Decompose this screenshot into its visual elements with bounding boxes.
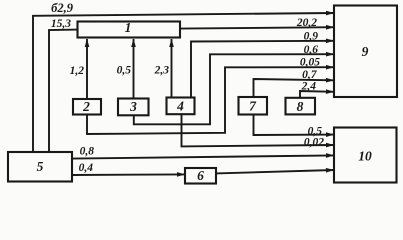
- svg-text:1: 1: [125, 20, 132, 35]
- svg-text:0,8: 0,8: [80, 146, 95, 158]
- wire 0,6 from box 3 bottom down, right, up and into box 9: [134, 54, 334, 124]
- box 10: [334, 128, 397, 183]
- svg-text:0,4: 0,4: [79, 162, 94, 174]
- wire 0,05 from box 2 bottom down, right, up and into box 9: [87, 67, 334, 134]
- wire 20,2 from box 1 right edge to box 9: [180, 27, 334, 28]
- svg-text:0,9: 0,9: [304, 31, 319, 43]
- wire б2,9 from box 5 up and right to box 9: [33, 13, 334, 152]
- box 6: [185, 168, 216, 184]
- wire 0,5 from box 3 top up into box 1: [133, 39, 135, 99]
- wire 0,02 from box 4 bottom down and right into box 10: [182, 114, 335, 146]
- svg-text:0,05: 0,05: [300, 57, 320, 69]
- svg-text:2,3: 2,3: [154, 65, 170, 77]
- wire 0,7 from box 7 top up and right into box 9: [254, 79, 335, 97]
- wire 15,3 from box 5 up and right into box 1 left edge: [49, 30, 78, 152]
- svg-text:4: 4: [176, 98, 184, 113]
- wire 2,3 from box 4 top up into box 1: [171, 39, 173, 98]
- svg-text:2: 2: [82, 99, 90, 114]
- wire 0,4 from box 5 right edge to box 6: [72, 173, 185, 176]
- svg-text:0,7: 0,7: [302, 69, 318, 81]
- box 9: [334, 6, 397, 98]
- svg-text:0,5: 0,5: [117, 65, 132, 77]
- wire 0,5 from box 7 bottom down and right into box 10: [254, 115, 335, 136]
- box 3: [118, 99, 149, 116]
- svg-text:9: 9: [362, 44, 369, 59]
- box 8: [286, 98, 316, 115]
- svg-text:10: 10: [358, 148, 372, 163]
- box 4: [167, 98, 195, 115]
- svg-text:2,4: 2,4: [301, 80, 317, 92]
- svg-text:0,02: 0,02: [304, 136, 324, 148]
- svg-text:20,2: 20,2: [296, 17, 317, 29]
- wire 0,9 from box 4 top riser to box 9: [191, 41, 334, 98]
- svg-text:5: 5: [37, 159, 44, 174]
- svg-text:б2,9: б2,9: [51, 1, 74, 15]
- box 2: [73, 99, 101, 115]
- svg-text:6: 6: [197, 168, 204, 183]
- wire 2,4 from box 8 top up and right into box 9: [300, 91, 334, 98]
- box 7: [239, 97, 268, 115]
- svg-text:8: 8: [297, 99, 304, 114]
- svg-text:1,2: 1,2: [70, 65, 85, 77]
- wire 1,2 from box 2 top up into box 1: [86, 39, 88, 99]
- svg-text:0,6: 0,6: [304, 44, 319, 56]
- box 5: [8, 152, 72, 182]
- wire 0,8 from box 5 right edge to box 10: [72, 155, 334, 158]
- wire from box 6 right edge to box 10: [216, 170, 334, 173]
- svg-text:15,3: 15,3: [51, 18, 71, 30]
- box 1: [78, 22, 181, 38]
- svg-text:3: 3: [129, 99, 137, 114]
